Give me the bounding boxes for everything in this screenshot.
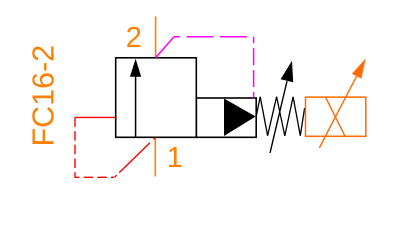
spring adjust arrow shaft bbox=[270, 81, 287, 153]
pilot line (magenta) horizontal dashed bbox=[174, 36, 254, 38]
pilot valve box bbox=[196, 98, 256, 137]
svg-text:1: 1 bbox=[167, 142, 183, 174]
flow arrow shaft bbox=[135, 75, 137, 137]
proportional arrowhead (orange) bbox=[352, 59, 366, 79]
pilot line (magenta) diagonal bbox=[156, 37, 174, 58]
drain line (red) solid to box bbox=[75, 116, 116, 118]
pilot line (magenta) vertical dashed bbox=[253, 37, 255, 98]
svg-text:2: 2 bbox=[126, 22, 142, 54]
svg-text:FC16-2: FC16-2 bbox=[27, 45, 61, 147]
flow arrowhead bbox=[130, 59, 141, 77]
port line 2 bbox=[155, 17, 157, 58]
spring adjust arrowhead bbox=[281, 61, 294, 82]
solenoid cross leg bbox=[325, 97, 345, 136]
proportional arrow shaft (orange) bbox=[319, 76, 356, 148]
drain line (red) dashed L bbox=[75, 117, 114, 177]
valve body box bbox=[116, 58, 197, 138]
spring bbox=[256, 97, 304, 136]
drain line (red) dashed diagonal bbox=[115, 138, 156, 178]
solenoid box (orange) bbox=[306, 97, 366, 136]
check triangle bbox=[224, 99, 256, 137]
port line 1 bbox=[154, 138, 156, 177]
